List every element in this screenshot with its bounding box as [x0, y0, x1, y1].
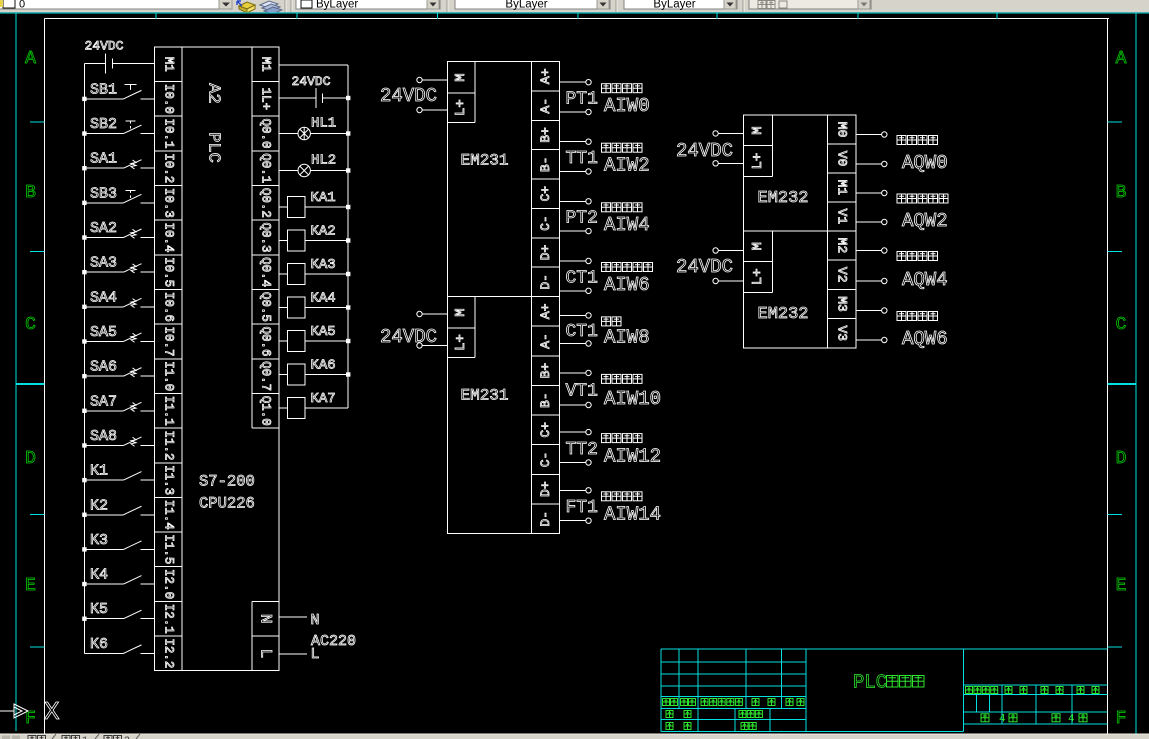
junction: [82, 409, 86, 413]
channel PT1 AIW0: [560, 80, 650, 118]
relay coil KA4: [279, 291, 350, 318]
PLC label S7-200: [199, 473, 255, 491]
svg-text:B: B: [1116, 183, 1127, 203]
svg-text:KA7: KA7: [311, 391, 336, 407]
svg-text:V1: V1: [834, 209, 849, 225]
svg-text:CT1: CT1: [566, 268, 598, 288]
svg-text:A: A: [25, 49, 36, 69]
svg-text:AIW4: AIW4: [604, 214, 650, 236]
PLC N L terminal cells: [252, 428, 279, 658]
PLC label CPU226: [199, 495, 255, 513]
svg-text:B+: B+: [538, 363, 553, 379]
svg-text:AIW8: AIW8: [604, 327, 650, 349]
switch SA4: [84, 289, 154, 307]
module EM232 U5 body: [743, 115, 856, 231]
svg-text:1L+: 1L+: [259, 88, 273, 111]
svg-text:M1: M1: [259, 57, 273, 72]
svg-text:I1.5: I1.5: [161, 534, 175, 564]
svg-text:AIW6: AIW6: [604, 274, 650, 296]
switch SB3: [84, 185, 154, 203]
junction: [82, 235, 86, 239]
label EM232 U5: [758, 189, 809, 208]
svg-text:AIW14: AIW14: [604, 504, 661, 526]
PLC A2 body: [155, 47, 280, 671]
toolbar grooves: [284, 0, 286, 12]
svg-text:D: D: [25, 449, 36, 469]
supply 24VDC U4: [380, 311, 448, 348]
switch SB2: [84, 116, 154, 134]
channel PT2 AIW4: [560, 199, 650, 237]
supply 24VDC U6: [676, 248, 743, 284]
title block header texts: [663, 699, 805, 730]
svg-text:CT1: CT1: [566, 322, 598, 342]
lamp HL2: [279, 152, 350, 176]
switch SA5: [84, 324, 154, 342]
svg-text:ByLayer: ByLayer: [316, 0, 358, 11]
input bus wire: [83, 64, 85, 654]
svg-text:SA5: SA5: [90, 324, 117, 341]
module EM231 U4 body: [448, 297, 560, 534]
wire M1 to bus: [279, 64, 348, 66]
svg-text:D-: D-: [538, 274, 553, 290]
battery B2 24VDC: [279, 88, 350, 108]
zone boundary ticks: [16, 122, 1136, 647]
svg-text:KA6: KA6: [311, 358, 336, 374]
output channel AQW0: [856, 132, 948, 174]
switch K5: [84, 601, 154, 619]
svg-text:SA4: SA4: [90, 289, 117, 306]
switch SA2: [84, 220, 154, 238]
label L: [311, 646, 320, 663]
svg-text:AIW0: AIW0: [604, 95, 650, 117]
svg-text:F: F: [1116, 709, 1127, 729]
junction: [82, 339, 86, 343]
junction: [82, 513, 86, 517]
relay coil KA5: [279, 324, 350, 351]
channel CT1 AIW6: [560, 258, 653, 296]
svg-text:EM231: EM231: [461, 387, 509, 405]
svg-text:I0.7: I0.7: [161, 326, 175, 356]
svg-text:SA2: SA2: [90, 220, 117, 237]
label N: [311, 612, 320, 629]
junction: [82, 547, 86, 551]
UCS icon X axis: [0, 697, 60, 727]
svg-text:C+: C+: [538, 422, 553, 438]
junction: [82, 131, 86, 135]
color dropdown ByLayer: [296, 0, 440, 11]
junction: [82, 443, 86, 447]
svg-text:PT2: PT2: [566, 209, 598, 229]
svg-text:TT1: TT1: [566, 149, 598, 169]
svg-text:SA1: SA1: [90, 151, 117, 168]
svg-text:E: E: [1116, 576, 1127, 596]
switch SB1: [84, 81, 154, 99]
svg-text:A-: A-: [538, 98, 553, 114]
svg-text:CPU226: CPU226: [199, 495, 255, 513]
svg-text:4: 4: [1068, 714, 1075, 726]
svg-text:M: M: [453, 73, 469, 81]
svg-text:I1.3: I1.3: [161, 465, 175, 495]
svg-text:AIW2: AIW2: [604, 155, 650, 177]
switch SA6: [84, 359, 154, 377]
svg-text:I0.4: I0.4: [161, 222, 175, 252]
svg-text:24VDC: 24VDC: [380, 85, 437, 107]
junction: [82, 617, 86, 621]
svg-text:SA3: SA3: [90, 255, 117, 272]
channel TT2 AIW12: [560, 429, 661, 467]
toolbar background: [0, 0, 1149, 13]
svg-text:M3: M3: [834, 296, 849, 312]
svg-text:HL2: HL2: [311, 152, 336, 168]
svg-text:PLC: PLC: [204, 132, 223, 163]
svg-text:AIW12: AIW12: [604, 446, 661, 468]
svg-text:A2: A2: [204, 83, 223, 103]
top column ticks: [156, 13, 997, 19]
svg-text:0: 0: [19, 0, 25, 11]
switch SA7: [84, 393, 154, 411]
PLC label PLC: [204, 132, 223, 163]
layer dropdown: [0, 0, 232, 11]
svg-text:L+: L+: [750, 268, 766, 285]
svg-text:E: E: [25, 576, 36, 596]
svg-text:A: A: [1116, 49, 1127, 69]
title text PLC接线图: [853, 672, 924, 694]
svg-text:Q0.2: Q0.2: [259, 188, 273, 218]
svg-text:I1.0: I1.0: [161, 361, 175, 391]
svg-text:M2: M2: [834, 238, 849, 254]
svg-text:Q0.7: Q0.7: [259, 361, 273, 391]
relay coil KA7: [279, 391, 348, 418]
svg-text:C+: C+: [538, 186, 553, 202]
svg-text:K4: K4: [90, 567, 108, 584]
junction: [82, 166, 86, 170]
svg-text:I0.3: I0.3: [161, 188, 175, 218]
EM232 U6 terminal cells: [828, 238, 856, 341]
junction: [82, 97, 86, 101]
module EM232 U6 body: [743, 231, 856, 348]
svg-text:K3: K3: [90, 532, 108, 549]
svg-text:Q0.4: Q0.4: [259, 257, 273, 287]
svg-text:FT1: FT1: [566, 498, 598, 518]
title block right texts: [966, 687, 1100, 726]
svg-text:KA1: KA1: [311, 190, 336, 206]
svg-text:SB2: SB2: [90, 116, 117, 133]
svg-text:HL1: HL1: [311, 116, 336, 132]
svg-text:I0.2: I0.2: [161, 153, 175, 183]
svg-text:Q1.0: Q1.0: [259, 396, 273, 426]
svg-text:B-: B-: [538, 157, 553, 173]
switch SA3: [84, 255, 154, 273]
zone letters left: [25, 49, 36, 729]
svg-text:C: C: [25, 315, 36, 335]
battery B1 24VDC: [84, 54, 154, 74]
svg-text:M: M: [750, 242, 766, 250]
zone letters right: [1116, 49, 1127, 729]
svg-text:M1: M1: [161, 57, 175, 72]
svg-text:K2: K2: [90, 497, 108, 514]
switch K1: [84, 463, 154, 481]
EM232 U5 terminal cells: [828, 122, 856, 225]
svg-text:SB3: SB3: [90, 185, 117, 202]
wire L: [279, 653, 307, 655]
svg-text:KA3: KA3: [311, 257, 336, 273]
switch K3: [84, 532, 154, 550]
label AC220: [311, 633, 356, 650]
junction: [82, 270, 86, 274]
svg-text:M1: M1: [834, 180, 849, 196]
label EM231 U4: [461, 387, 509, 405]
wire N: [279, 616, 307, 618]
svg-text:D-: D-: [538, 511, 553, 527]
channel VT1 AIW10: [560, 370, 661, 410]
junction: [82, 478, 86, 482]
svg-text:C-: C-: [538, 215, 553, 231]
model/layout tab bar: [0, 734, 1149, 739]
svg-text:24VDC: 24VDC: [85, 39, 124, 54]
svg-text:M: M: [453, 308, 469, 316]
groove: [742, 0, 744, 12]
svg-text:B: B: [25, 183, 36, 203]
svg-text:K1: K1: [90, 463, 108, 480]
module EM231 U3 body: [448, 62, 560, 297]
svg-text:D+: D+: [538, 244, 553, 260]
svg-text:I2.1: I2.1: [161, 604, 175, 634]
plotstyle dropdown ByBlock disabled: [749, 0, 871, 9]
svg-text:AQW4: AQW4: [902, 269, 948, 291]
svg-text:AQW6: AQW6: [902, 328, 948, 350]
supply 24VDC U5: [676, 131, 743, 166]
svg-text:24VDC: 24VDC: [676, 256, 733, 278]
junction: [82, 582, 86, 586]
label 24VDC input battery: [85, 39, 124, 54]
PLC right terminal strip cells: [252, 57, 279, 426]
switch K6: [84, 636, 154, 654]
title block: [661, 649, 1107, 732]
label EM231 U3: [461, 152, 509, 170]
linetype dropdown ByLayer: [455, 0, 610, 11]
svg-text:L: L: [311, 646, 320, 663]
svg-text:AIW10: AIW10: [604, 388, 661, 410]
svg-text:S7-200: S7-200: [199, 473, 255, 491]
svg-text:D: D: [1116, 449, 1127, 469]
svg-text:M0: M0: [834, 122, 849, 138]
svg-text:24VDC: 24VDC: [292, 74, 331, 89]
label 24VDC output battery: [292, 74, 331, 89]
svg-text:C: C: [1116, 315, 1127, 335]
svg-text:24VDC: 24VDC: [380, 326, 437, 348]
svg-text:Q0.0: Q0.0: [259, 119, 273, 149]
svg-text:I0.0: I0.0: [161, 84, 175, 114]
channel CT1 AIW8: [560, 313, 650, 349]
relay coil KA6: [279, 358, 350, 385]
svg-text:ByLayer: ByLayer: [653, 0, 695, 11]
output channel AQW4: [856, 248, 948, 291]
svg-text:L+: L+: [750, 153, 766, 170]
junction: [82, 374, 86, 378]
svg-text:Q0.6: Q0.6: [259, 326, 273, 356]
svg-text:I0.5: I0.5: [161, 257, 175, 287]
PLC label A2: [204, 83, 223, 103]
svg-text:AQW0: AQW0: [902, 152, 948, 174]
lamp HL1: [279, 116, 350, 140]
switch SA8: [84, 428, 154, 446]
svg-text:D+: D+: [538, 481, 553, 497]
groove: [446, 0, 448, 12]
output channel AQW2: [856, 190, 948, 232]
relay coil KA2: [279, 224, 350, 251]
svg-text:EM232: EM232: [758, 189, 809, 208]
svg-text:TT2: TT2: [566, 440, 598, 460]
svg-text:VT1: VT1: [566, 381, 598, 401]
svg-text:C-: C-: [538, 452, 553, 468]
junction: [82, 305, 86, 309]
svg-text:PLC: PLC: [853, 672, 887, 694]
svg-text:X: X: [44, 697, 60, 727]
svg-text:V0: V0: [834, 151, 849, 167]
toolbar button: make layer current: [237, 1, 255, 13]
relay coil KA3: [279, 257, 350, 284]
output bus wire: [347, 65, 349, 408]
svg-text:B-: B-: [538, 392, 553, 408]
svg-text:V2: V2: [834, 267, 849, 283]
EM231 U3 terminal cells: [532, 68, 560, 289]
switch SA1: [84, 151, 154, 169]
svg-text:AQW2: AQW2: [902, 210, 948, 232]
svg-text:N: N: [311, 612, 320, 629]
svg-text:EM232: EM232: [758, 305, 809, 324]
supply 24VDC U3: [380, 77, 448, 112]
svg-text:I1.1: I1.1: [161, 396, 175, 426]
svg-text:KA2: KA2: [311, 224, 336, 240]
svg-text:SA6: SA6: [90, 359, 117, 376]
svg-text:A-: A-: [538, 333, 553, 349]
svg-text:A+: A+: [538, 303, 553, 319]
svg-text:I2.2: I2.2: [161, 638, 175, 668]
channel FT1 AIW14: [560, 488, 661, 526]
svg-text:I0.1: I0.1: [161, 119, 175, 149]
output channel AQW6: [856, 308, 948, 350]
svg-text:A+: A+: [538, 68, 553, 84]
svg-text:N: N: [257, 614, 275, 624]
svg-text:L: L: [257, 649, 275, 659]
switch K4: [84, 567, 154, 585]
svg-text:I0.6: I0.6: [161, 292, 175, 322]
relay coil KA1: [279, 190, 350, 217]
channel TT1 AIW2: [560, 139, 650, 177]
svg-text:KA4: KA4: [311, 291, 336, 307]
svg-text:K5: K5: [90, 601, 108, 618]
svg-text:M: M: [750, 126, 766, 134]
svg-text:SB1: SB1: [90, 81, 117, 98]
svg-text:K6: K6: [90, 636, 108, 653]
svg-text:SA8: SA8: [90, 428, 117, 445]
junction: [82, 201, 86, 205]
svg-text:L+: L+: [453, 334, 469, 351]
EM231 U4 terminal cells: [532, 303, 560, 526]
svg-text:ByLayer: ByLayer: [505, 0, 547, 11]
svg-text:PT1: PT1: [566, 90, 598, 110]
svg-text:4: 4: [999, 714, 1006, 726]
svg-text:I1.2: I1.2: [161, 430, 175, 460]
switch K2: [84, 497, 154, 515]
svg-text:24VDC: 24VDC: [676, 140, 733, 162]
svg-text:V3: V3: [834, 325, 849, 341]
svg-text:Q0.1: Q0.1: [259, 153, 273, 183]
label EM232 U6: [758, 305, 809, 324]
svg-text:L+: L+: [453, 99, 469, 116]
lineweight dropdown ByLayer: [624, 0, 737, 11]
svg-text:Q0.3: Q0.3: [259, 222, 273, 252]
svg-text:B+: B+: [538, 127, 553, 143]
toolbar button: layers: [260, 1, 282, 14]
svg-text:EM231: EM231: [461, 152, 509, 170]
svg-text:Q0.5: Q0.5: [259, 292, 273, 322]
svg-text:KA5: KA5: [311, 324, 336, 340]
svg-text:I1.4: I1.4: [161, 500, 175, 530]
svg-text:SA7: SA7: [90, 393, 117, 410]
PLC left terminal strip cells: [155, 57, 183, 669]
svg-text:I2.0: I2.0: [161, 569, 175, 599]
groove: [615, 0, 617, 12]
